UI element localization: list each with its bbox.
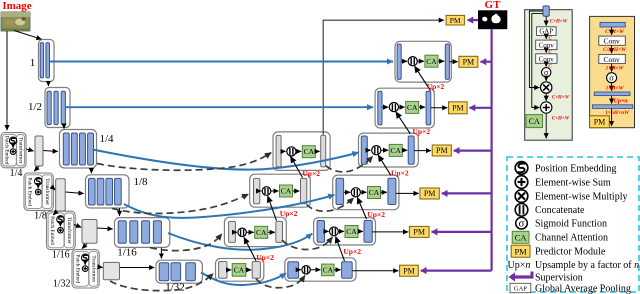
svg-text:PM: PM [403, 266, 415, 275]
svg-text:σ: σ [544, 68, 549, 77]
svg-text:1×nH×nW: 1×nH×nW [605, 110, 630, 116]
svg-text:Predictor Module: Predictor Module [535, 247, 606, 258]
svg-text:σ: σ [609, 73, 614, 83]
svg-text:PM: PM [413, 228, 425, 237]
svg-text:Patch Embed: Patch Embed [49, 216, 55, 245]
svg-text:Up×2: Up×2 [302, 169, 320, 178]
svg-text:Patch Embed: Patch Embed [26, 177, 32, 206]
svg-text:CA: CA [529, 117, 540, 126]
svg-text:Up×2: Up×2 [412, 127, 430, 136]
svg-text:Element-wise Multiply: Element-wise Multiply [535, 192, 628, 203]
svg-text:Global Average Pooling: Global Average Pooling [535, 283, 631, 294]
svg-text:CA: CA [407, 103, 418, 112]
svg-text:Up×2: Up×2 [280, 209, 298, 218]
svg-text:PM: PM [594, 118, 606, 127]
svg-text:PM: PM [514, 246, 527, 256]
svg-text:GAP: GAP [539, 29, 553, 36]
svg-text:PM: PM [452, 104, 464, 113]
svg-text:C×H×W: C×H×W [550, 19, 568, 24]
svg-text:Transformer: Transformer [90, 255, 97, 282]
svg-text:1/4: 1/4 [10, 168, 23, 179]
svg-text:PM: PM [436, 146, 448, 155]
svg-text:CA: CA [234, 266, 245, 275]
svg-text:Patch Embed: Patch Embed [3, 136, 9, 165]
svg-text:1×H×W: 1×H×W [606, 66, 625, 72]
svg-text:Up×2: Up×2 [427, 82, 445, 91]
svg-text:CA: CA [426, 57, 437, 66]
svg-text:PM: PM [463, 58, 475, 67]
svg-text:CA: CA [323, 266, 334, 275]
svg-text:1/8: 1/8 [34, 211, 47, 222]
svg-text:Conv: Conv [603, 37, 620, 46]
svg-text:Element-wise Sum: Element-wise Sum [535, 177, 611, 188]
svg-text:1/16: 1/16 [117, 247, 137, 259]
svg-text:Conv: Conv [539, 42, 555, 50]
svg-text:Position Embedding: Position Embedding [535, 163, 616, 174]
svg-text:CA: CA [256, 228, 267, 237]
svg-text:Transformer: Transformer [18, 137, 25, 164]
svg-text:CA: CA [346, 227, 357, 236]
svg-text:Up×2: Up×2 [343, 247, 361, 256]
svg-text:Transformer: Transformer [66, 217, 73, 244]
svg-text:1/16: 1/16 [52, 250, 70, 261]
svg-text:Channel Attention: Channel Attention [535, 233, 608, 244]
svg-text:CA: CA [515, 233, 528, 243]
svg-text:C/2×H×W: C/2×H×W [603, 47, 627, 53]
svg-text:Supervision: Supervision [535, 272, 583, 283]
svg-text:Image: Image [2, 0, 31, 12]
svg-text:CA: CA [390, 146, 401, 155]
svg-text:Sigmoid Function: Sigmoid Function [535, 219, 607, 230]
svg-text:Concatenate: Concatenate [535, 205, 585, 216]
svg-text:1/4: 1/4 [99, 133, 114, 145]
svg-text:CA: CA [304, 147, 315, 156]
svg-text:1/32: 1/32 [53, 279, 71, 290]
svg-text:σ: σ [519, 217, 525, 229]
svg-text:GT: GT [485, 0, 502, 11]
svg-text:Up×2: Up×2 [256, 253, 274, 262]
svg-text:CA: CA [369, 188, 380, 197]
svg-text:Conv: Conv [603, 55, 620, 64]
svg-text:Patch Embed: Patch Embed [74, 255, 80, 284]
svg-text:C×H×W: C×H×W [552, 116, 570, 121]
svg-text:1: 1 [30, 57, 36, 69]
svg-text:Conv: Conv [539, 55, 555, 63]
svg-text:Up×n: Up×n [508, 260, 531, 271]
svg-text:PM: PM [424, 189, 436, 198]
svg-text:1×H×W: 1×H×W [606, 85, 625, 91]
svg-text:Up×n: Up×n [614, 98, 629, 104]
svg-text:GAP: GAP [514, 285, 527, 292]
svg-text:C×H×W: C×H×W [552, 95, 570, 100]
svg-text:Transformer: Transformer [44, 178, 51, 205]
svg-text:C×H×W: C×H×W [605, 29, 625, 35]
svg-text:CA: CA [281, 187, 292, 196]
svg-text:Upsample by a factor of n: Upsample by a factor of n [535, 260, 639, 271]
svg-text:Up×2: Up×2 [391, 168, 409, 177]
svg-text:1/32: 1/32 [165, 282, 185, 294]
svg-text:1/2: 1/2 [28, 101, 42, 113]
svg-text:Up×2: Up×2 [367, 210, 385, 219]
svg-text:PM: PM [450, 16, 461, 25]
svg-text:1/8: 1/8 [133, 176, 148, 188]
